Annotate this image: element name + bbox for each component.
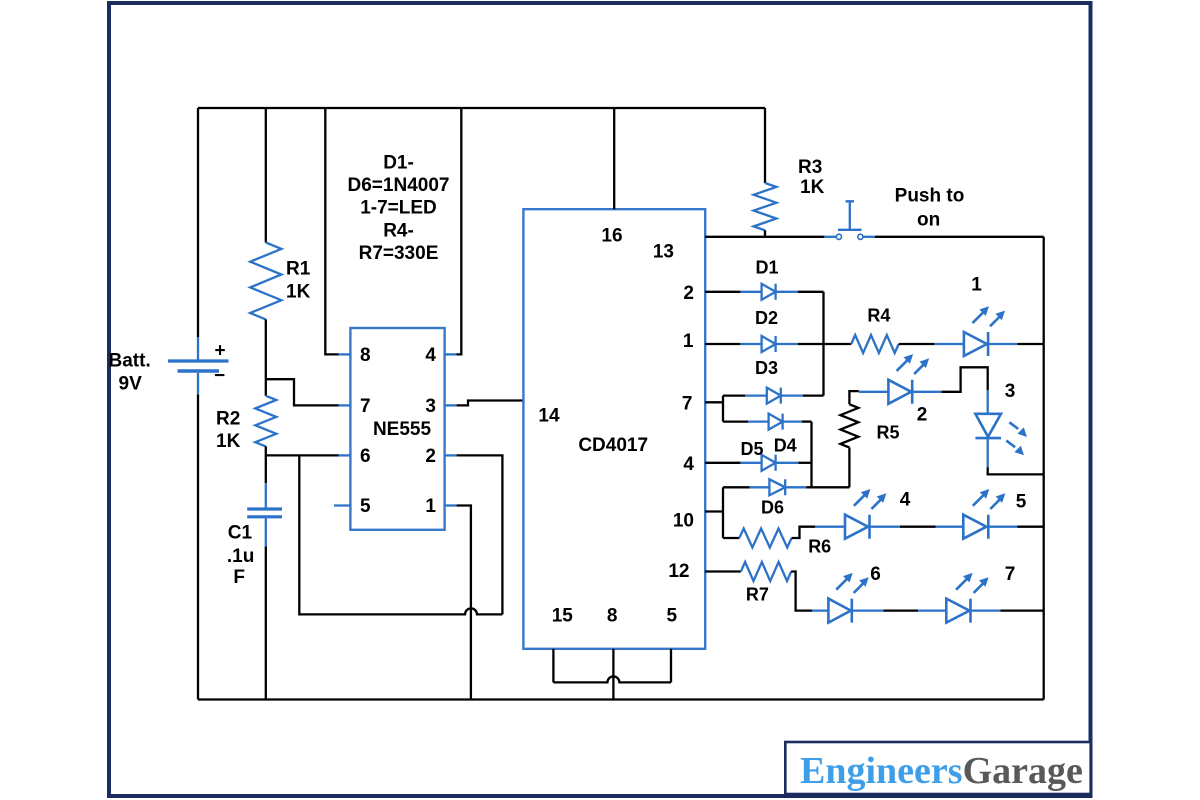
- svg-text:R2: R2: [216, 409, 240, 430]
- wire node B to C1: [265, 455, 267, 483]
- svg-text:D3: D3: [755, 358, 778, 378]
- svg-text:12: 12: [668, 561, 689, 582]
- wire D2 cathode to R4: [798, 343, 851, 345]
- pin stub 8: [338, 353, 350, 355]
- wire pin10 jog vertical: [722, 487, 724, 538]
- svg-text:9V: 9V: [119, 374, 143, 395]
- pin stub 1: [445, 504, 457, 506]
- wire pin2 row to D1: [705, 291, 740, 293]
- wire LED4 to LED5: [900, 526, 936, 528]
- wire pin13 to switch: [705, 236, 824, 238]
- LED 5: [936, 526, 1018, 528]
- diode D1: [740, 291, 798, 293]
- svg-text:D1-: D1-: [383, 153, 414, 174]
- wire pin5 stub down: [670, 649, 672, 683]
- svg-text:6: 6: [870, 564, 881, 585]
- svg-text:1K: 1K: [216, 431, 241, 452]
- capacitor C1 .1uF: [265, 483, 267, 507]
- wire pin7 jog vertical: [722, 396, 724, 422]
- wire battery negative lead: [197, 395, 199, 700]
- wire V+ top rail: [198, 107, 765, 109]
- svg-text:Batt.: Batt.: [109, 351, 151, 372]
- svg-text:R7: R7: [746, 585, 769, 605]
- svg-text:.1u: .1u: [227, 546, 254, 567]
- resistor R1: [250, 243, 281, 320]
- svg-text:R4: R4: [867, 306, 890, 326]
- svg-text:EngineersGarage: EngineersGarage: [800, 750, 1083, 792]
- wire LED6 to LED7: [883, 609, 918, 611]
- resistor R4: [851, 335, 899, 353]
- wire pin1 row to D2: [705, 343, 740, 345]
- LED 4: [815, 526, 900, 528]
- svg-text:Push to: Push to: [895, 186, 965, 207]
- EngineersGarage logo: [785, 742, 1090, 794]
- pin stub 4: [445, 353, 457, 355]
- switch S1 push to on: [824, 236, 836, 238]
- svg-text:2: 2: [683, 283, 694, 304]
- resistor R5: [848, 448, 850, 488]
- wire pin15 to pin5 with hop: [553, 676, 671, 682]
- wire R3 top branch: [764, 108, 766, 183]
- diode D6: [750, 486, 807, 488]
- wire pin12 row: [705, 570, 741, 572]
- svg-text:6: 6: [360, 446, 371, 467]
- svg-text:1: 1: [683, 331, 694, 352]
- svg-text:1K: 1K: [286, 282, 311, 303]
- svg-text:13: 13: [653, 242, 674, 263]
- pin stub 3: [445, 404, 457, 406]
- wire pin2 feedback to pin6: [299, 455, 502, 614]
- svg-text:3: 3: [425, 396, 436, 417]
- wire common cathode vertical: [822, 292, 824, 396]
- diode D4: [748, 420, 802, 422]
- svg-text:14: 14: [538, 406, 560, 427]
- wire node A to pin7 jog: [266, 379, 339, 405]
- resistor R2: [255, 396, 276, 447]
- wire R4 to LED1: [899, 343, 935, 345]
- svg-text:F: F: [233, 567, 245, 588]
- wire C1 to ground rail: [265, 547, 267, 700]
- diode D3: [745, 394, 803, 396]
- svg-text:7: 7: [360, 396, 371, 417]
- svg-text:4: 4: [900, 490, 911, 511]
- svg-text:8: 8: [607, 606, 618, 627]
- wire battery positive lead: [197, 108, 199, 337]
- svg-text:3: 3: [1005, 381, 1016, 402]
- wire pin1 to ground: [457, 506, 471, 700]
- LED 6: [812, 609, 883, 611]
- svg-text:R5: R5: [876, 423, 899, 443]
- wire pin8 to ground rail: [612, 649, 614, 700]
- svg-text:R4-: R4-: [383, 221, 414, 242]
- wire pin15 stub down: [552, 649, 554, 683]
- svg-text:R1: R1: [286, 259, 311, 280]
- svg-text:8: 8: [360, 345, 371, 366]
- battery BT1 9V: [197, 337, 199, 360]
- wire pin7 stub: [705, 401, 723, 403]
- wire pin10 stub: [705, 510, 723, 512]
- pin stub 7: [338, 404, 350, 406]
- svg-text:R6: R6: [808, 537, 831, 557]
- svg-text:NE555: NE555: [373, 419, 432, 440]
- svg-text:C1: C1: [228, 523, 253, 544]
- LED 3: [987, 390, 989, 414]
- svg-text:2: 2: [917, 405, 928, 426]
- resistor R7: [741, 562, 791, 581]
- svg-text:1-7=LED: 1-7=LED: [360, 198, 437, 219]
- svg-text:1K: 1K: [800, 177, 825, 198]
- svg-text:5: 5: [360, 496, 371, 517]
- pin stub 5: [334, 504, 350, 506]
- svg-text:R7=330E: R7=330E: [359, 243, 439, 264]
- wire R1-R2 junction: [265, 319, 267, 395]
- svg-text:10: 10: [673, 511, 694, 532]
- svg-text:CD4017: CD4017: [578, 435, 648, 456]
- svg-text:D2: D2: [755, 308, 778, 328]
- wire to D3: [723, 394, 745, 396]
- LED 1: [934, 343, 1017, 345]
- wire to D4: [723, 420, 748, 422]
- LED 7: [918, 609, 1000, 611]
- svg-text:D5: D5: [740, 439, 763, 459]
- wire LED2 to LED3 jog: [942, 367, 988, 392]
- IC U2 CD4017 box: [523, 209, 705, 649]
- wire D5 cathode to vertical: [798, 462, 811, 464]
- svg-text:1: 1: [971, 275, 982, 296]
- wire D4-D5 cathode vertical: [810, 422, 812, 488]
- wire pin16 supply branch: [613, 108, 615, 209]
- svg-text:−: −: [214, 366, 225, 387]
- wire D4 cathode to vertical: [802, 420, 812, 422]
- wire switch to right rail: [875, 236, 1044, 238]
- svg-text:5: 5: [1016, 492, 1027, 513]
- LED 2: [859, 391, 942, 393]
- wire NE555 pin8 supply branch: [325, 108, 339, 354]
- svg-text:15: 15: [552, 606, 574, 627]
- wire R5 top to LED2: [849, 391, 858, 404]
- svg-text:D6: D6: [761, 498, 784, 518]
- resistor R6: [723, 537, 739, 539]
- wire LED7 to right rail: [1000, 609, 1043, 611]
- svg-text:D4: D4: [774, 435, 797, 455]
- svg-text:7: 7: [682, 393, 693, 414]
- wire D3 cathode to common node: [803, 394, 824, 396]
- svg-text:D1: D1: [755, 258, 778, 278]
- wire LED3 to right rail: [988, 468, 1044, 475]
- wire R6 to LED4 row: [792, 527, 816, 538]
- wire right rail: [1043, 237, 1045, 700]
- resistor R3: [754, 183, 777, 230]
- svg-text:+: +: [214, 341, 225, 362]
- wire NE555 pin4 supply branch: [456, 108, 461, 354]
- svg-text:7: 7: [1005, 564, 1016, 585]
- pin stub 2: [445, 454, 457, 456]
- wire R3 bottom to node: [764, 230, 766, 237]
- wire LED1 to right rail: [1018, 343, 1044, 345]
- wire R7 to LED6 row: [791, 572, 812, 611]
- wire pin4 row to D5: [705, 462, 740, 464]
- diode D2: [740, 343, 798, 345]
- wire D1 cathode to common node: [798, 291, 824, 293]
- wire LED5 to right rail: [1018, 526, 1044, 528]
- svg-text:on: on: [917, 210, 940, 231]
- wire R1 top branch: [265, 108, 267, 243]
- svg-text:1: 1: [425, 496, 436, 517]
- wire pin3 to CD4017 pin14: [457, 401, 524, 406]
- svg-text:16: 16: [601, 226, 622, 247]
- diode D5: [740, 462, 798, 464]
- wire R2 bottom to pin6 node: [266, 446, 339, 455]
- svg-text:4: 4: [683, 454, 694, 475]
- wire to D6: [723, 486, 750, 488]
- svg-text:D6=1N4007: D6=1N4007: [348, 175, 450, 196]
- svg-text:R3: R3: [798, 157, 822, 178]
- svg-text:5: 5: [667, 606, 678, 627]
- pin stub 6: [338, 454, 350, 456]
- wire D6 cathode to R5 bottom: [806, 486, 849, 488]
- svg-text:2: 2: [425, 446, 436, 467]
- wire ground bottom rail: [198, 698, 1044, 700]
- svg-text:4: 4: [425, 345, 436, 366]
- op-amp U1 NE555 box: [350, 328, 444, 530]
